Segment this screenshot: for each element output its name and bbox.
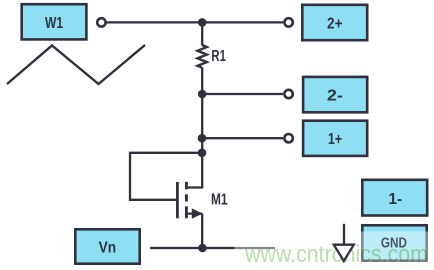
wire resistor bottom to node B (201, 68, 203, 95)
box GND (362, 225, 426, 260)
wire node B down to node C (201, 94, 203, 138)
box 2+ (302, 5, 367, 40)
transistor M1 gate bar (176, 182, 179, 218)
wire M1 source down to node E (201, 214, 203, 248)
terminal circle 2+ (284, 18, 292, 26)
junction node E (198, 244, 207, 253)
box Vn (75, 229, 139, 263)
watermark band (235, 231, 434, 264)
wire gate feedback loop from node D (130, 153, 202, 200)
box 1+ (303, 121, 367, 156)
triangle waveform symbol (7, 45, 145, 84)
junction node D (198, 149, 207, 158)
svg-text:2-: 2- (327, 87, 343, 104)
ground lead wire (343, 224, 345, 246)
box W1 (22, 4, 87, 39)
terminal circle 2- (284, 90, 292, 98)
box 1- (362, 180, 427, 216)
transistor M1 source line with arrow (186, 212, 202, 214)
svg-text:1-: 1- (389, 191, 403, 208)
terminal circle W1 output (97, 18, 105, 26)
junction node B (198, 90, 207, 99)
box 2- (303, 77, 367, 112)
wire node C down to node D and M1 drain (201, 138, 203, 187)
svg-text:R1: R1 (211, 48, 226, 65)
wire W1 output to node A (106, 21, 283, 23)
wire node C to terminal 1+ (202, 137, 283, 139)
transistor M1 channel dashed bar (185, 182, 188, 190)
wire node A down to resistor R1 top (201, 22, 203, 45)
wire M1 drain horizontal (186, 186, 203, 188)
svg-text:1+: 1+ (328, 131, 342, 148)
wire node B to terminal 2- (202, 93, 283, 95)
ground symbol triangle (334, 245, 354, 261)
junction node A (198, 18, 207, 27)
svg-text:2+: 2+ (327, 15, 343, 32)
svg-text:W1: W1 (45, 15, 63, 32)
junction node C (198, 134, 207, 143)
resistor R1 (198, 45, 207, 68)
svg-text:Vn: Vn (99, 240, 117, 257)
svg-text:M1: M1 (211, 192, 228, 209)
wire Vn to node E and stub right (150, 247, 275, 249)
terminal circle 1+ (284, 134, 292, 142)
